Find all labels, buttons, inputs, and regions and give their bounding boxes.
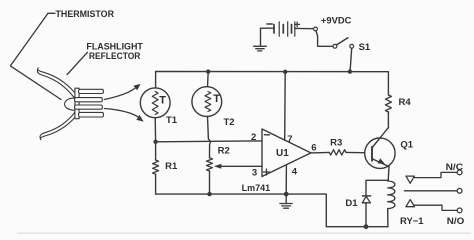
thermistor T2: [207, 72, 210, 87]
thermistor fin 3: [75, 105, 103, 109]
wire node to R1: [155, 142, 157, 160]
FLASHLIGHT REFLECTOR leader line: [67, 52, 87, 74]
node opamp ground: [284, 192, 289, 197]
svg-text:S1: S1: [359, 42, 371, 53]
top rail wire: [156, 72, 389, 96]
svg-text:N/C: N/C: [446, 162, 464, 173]
thermistor body bar: [75, 88, 79, 119]
THERMISTOR leader line: [10, 13, 61, 99]
node D1 bottom: [364, 224, 369, 229]
faint caption remnant: [18, 232, 470, 234]
node T1 R1 pin2: [153, 140, 157, 144]
battery minus sign: [267, 23, 272, 25]
S1 pole contact: [333, 44, 337, 48]
relay contact N/C arm: [406, 176, 415, 183]
svg-text:D1: D1: [345, 198, 358, 209]
R2 wiper wire to pin 3: [220, 165, 263, 167]
Q1 base bar: [371, 147, 373, 161]
svg-text:3: 3: [252, 168, 257, 179]
wire pin 2: [156, 140, 262, 143]
svg-text:R3: R3: [330, 138, 342, 149]
svg-text:T2: T2: [224, 117, 235, 128]
node T2 top: [206, 69, 210, 73]
resistor R1: [153, 160, 159, 174]
wire R1 to bottom rail: [155, 174, 157, 194]
heat arrow lower: [104, 109, 140, 119]
wire D1 to bottom rail: [365, 203, 367, 227]
thermistor bulb: [65, 98, 76, 110]
diode D1: [363, 195, 371, 197]
wire ground to battery: [261, 27, 275, 29]
svg-text:6: 6: [311, 142, 316, 153]
svg-text:+9VDC: +9VDC: [321, 16, 352, 27]
flashlight reflector top shell: [37, 68, 77, 97]
pin 7 wire: [284, 72, 287, 140]
svg-text:Lm741: Lm741: [242, 183, 271, 194]
transistor Q1: [365, 138, 395, 168]
resistor R3: [329, 150, 346, 155]
wire coil to bottom rail: [387, 209, 389, 227]
resistor R4: [385, 95, 391, 112]
svg-text:R2: R2: [218, 145, 230, 156]
svg-text:THERMISTOR: THERMISTOR: [56, 9, 115, 20]
svg-text:T: T: [159, 95, 166, 107]
resistor R2 potentiometer: [207, 158, 213, 171]
Q1 emitter: [372, 159, 389, 167]
wire Q1 emitter to coil: [387, 167, 390, 181]
wire S1 to top rail: [350, 48, 352, 69]
thermistor fin 1: [79, 89, 104, 93]
wire S1 terminal A down: [316, 31, 333, 47]
thermistor fin 2: [75, 98, 103, 102]
thermistor T1: [140, 88, 170, 118]
battery ground: [260, 29, 262, 46]
relay pole arm: [404, 190, 457, 192]
svg-text:R1: R1: [165, 161, 178, 172]
battery plus sign: [295, 22, 300, 27]
Q1 collector: [372, 128, 388, 148]
output wire pin6 to R3: [311, 151, 329, 154]
opamp ground: [285, 194, 287, 203]
svg-text:REFLECTOR: REFLECTOR: [89, 51, 141, 62]
wire battery to S1 terminal: [295, 27, 314, 29]
wire R4 to Q1 collector: [387, 112, 389, 128]
wire T2 down with crossover hop: [208, 117, 211, 158]
svg-text:4: 4: [292, 166, 298, 177]
wire T1 to node: [154, 118, 156, 142]
node pin7 rail: [283, 70, 287, 74]
svg-text:U1: U1: [276, 148, 289, 159]
minus sign pin2: [264, 134, 269, 136]
op-amp U1: [262, 129, 311, 177]
S1 blade: [337, 38, 348, 45]
wire R3 to Q1 base: [346, 151, 372, 153]
flashlight reflector bottom shell: [40, 112, 78, 140]
S1 throw contact: [350, 44, 354, 48]
svg-text:T: T: [213, 93, 220, 105]
wire R2 to bottom rail: [209, 171, 211, 194]
wire coil top to D1: [366, 180, 388, 195]
S1 terminal A: [314, 27, 318, 31]
relay coil RY-1: [388, 181, 395, 209]
svg-text:RY−1: RY−1: [400, 216, 424, 227]
svg-text:N/O: N/O: [447, 216, 465, 227]
pin 4 wire: [285, 165, 287, 194]
svg-text:7: 7: [287, 134, 292, 145]
bottom rail wire: [156, 194, 388, 227]
svg-text:Q1: Q1: [400, 140, 413, 151]
svg-text:T1: T1: [166, 115, 178, 126]
svg-text:2: 2: [251, 132, 256, 143]
thermistor fin 4: [79, 112, 104, 117]
battery B1: [273, 25, 275, 34]
relay contact N/O arm: [406, 200, 415, 207]
plus sign pin3: [263, 169, 269, 175]
svg-text:R4: R4: [399, 97, 412, 108]
heat arrow upper: [104, 87, 136, 100]
node R2 bottom: [207, 192, 211, 196]
node S1 rail: [348, 69, 352, 73]
